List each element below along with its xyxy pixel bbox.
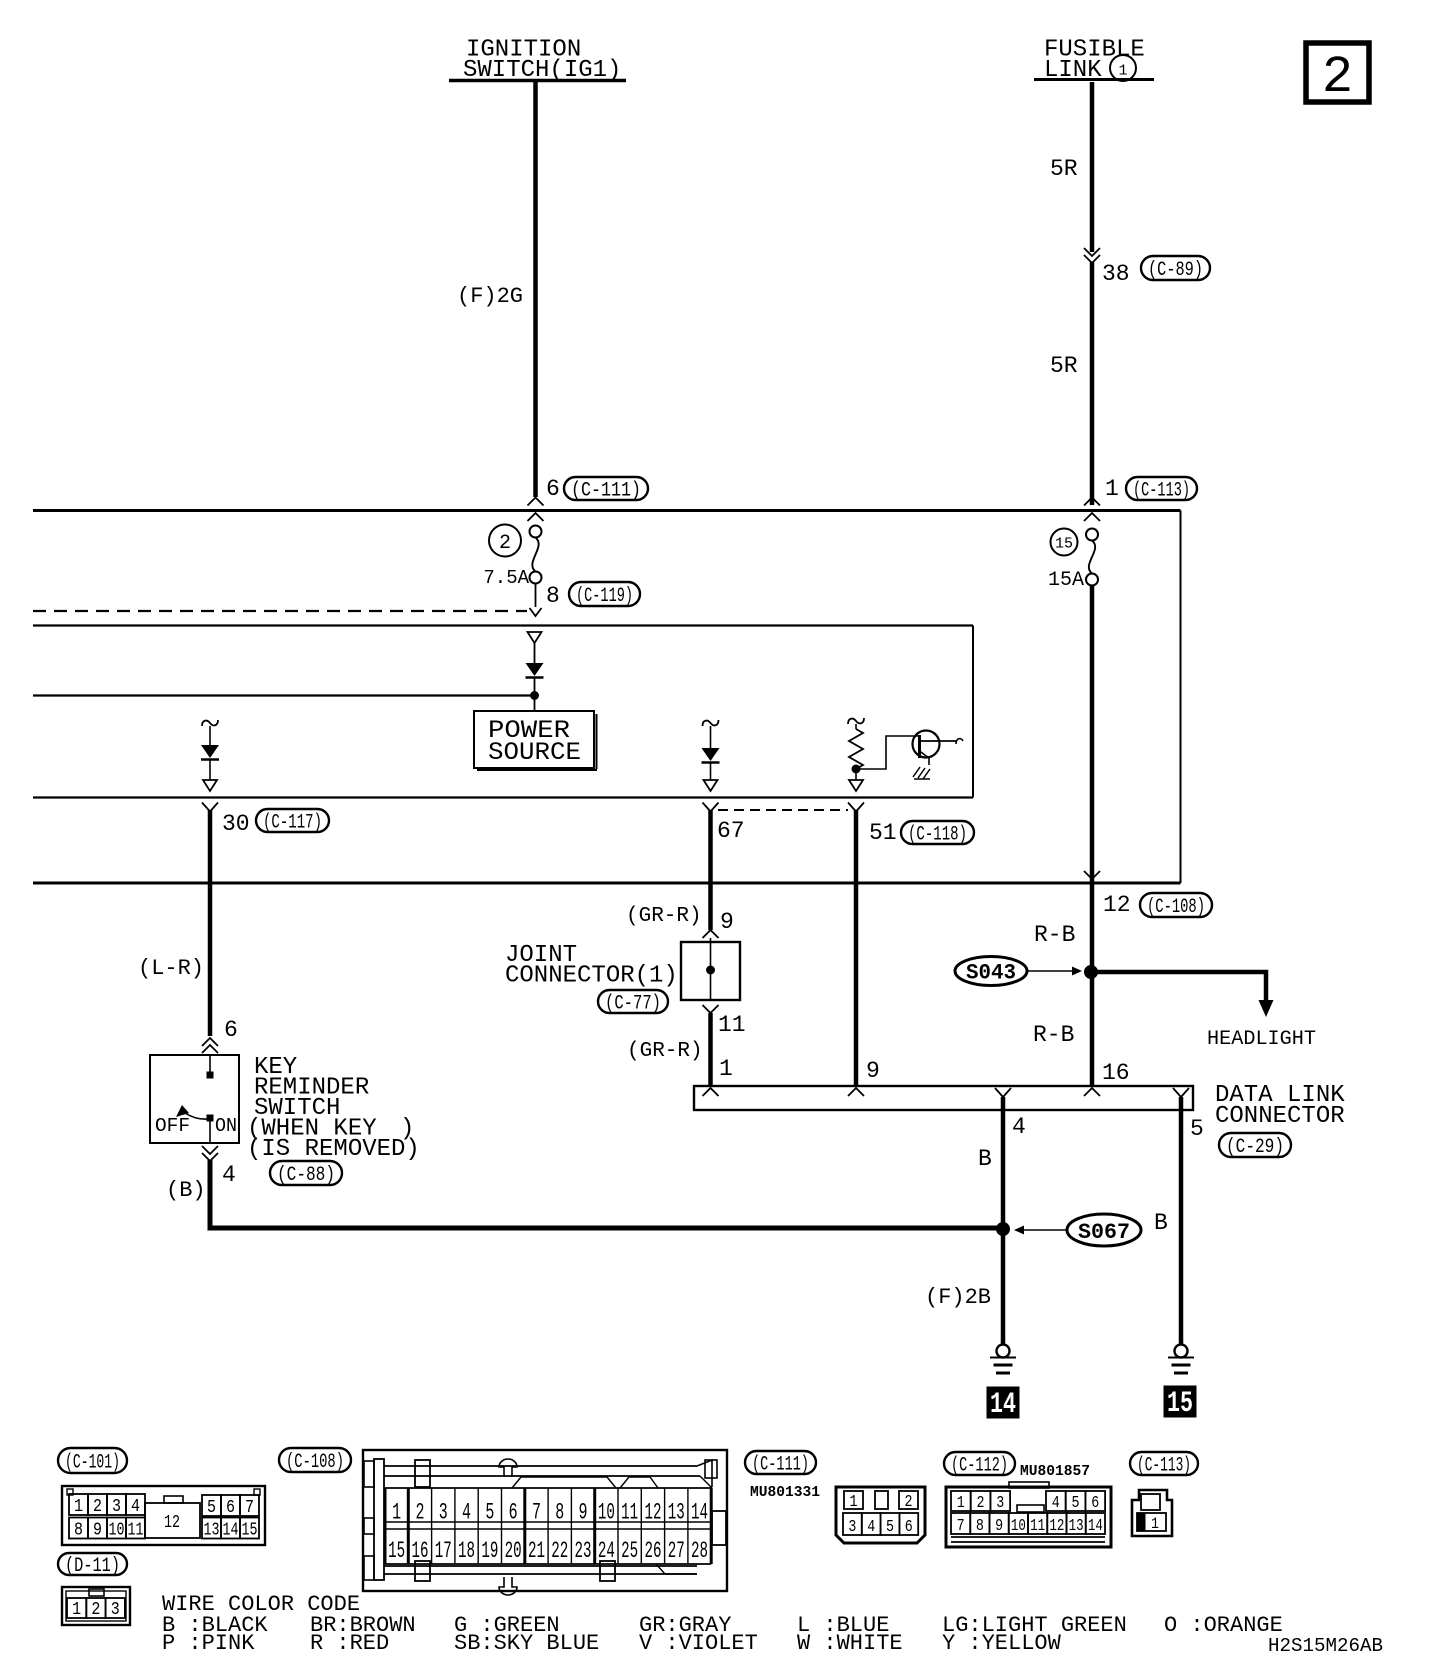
svg-text:1: 1 xyxy=(957,1494,965,1513)
svg-text:R-B: R-B xyxy=(1034,922,1075,948)
fuse 2 (7.5A) xyxy=(483,513,543,589)
label WIRE COLOR CODE xyxy=(162,1592,360,1617)
svg-text:(F)2B: (F)2B xyxy=(925,1285,991,1310)
svg-text:10: 10 xyxy=(109,1521,125,1541)
connector label D-11 xyxy=(58,1553,127,1578)
svg-text:SOURCE: SOURCE xyxy=(488,738,581,767)
svg-text:(C-29): (C-29) xyxy=(1226,1136,1284,1159)
svg-text:1: 1 xyxy=(72,1600,81,1620)
svg-text:3: 3 xyxy=(112,1497,121,1517)
wire fusible link 5R lower xyxy=(1090,262,1095,505)
svg-text:1: 1 xyxy=(1118,63,1127,80)
svg-text:27: 27 xyxy=(668,1538,685,1564)
wire bus line 3 (top of inner box) xyxy=(33,624,973,626)
ground G2 xyxy=(1168,1345,1194,1374)
svg-text:5: 5 xyxy=(485,1500,494,1526)
wire GR-R pin 67 down to joint connector xyxy=(708,810,713,930)
svg-text:2: 2 xyxy=(499,532,511,555)
label KEY REMINDER SWITCH xyxy=(247,1054,420,1163)
svg-text:2: 2 xyxy=(1322,48,1353,107)
svg-text:10: 10 xyxy=(598,1500,615,1526)
svg-text:(L-R): (L-R) xyxy=(138,956,204,981)
svg-text:1: 1 xyxy=(74,1497,83,1517)
svg-text:(C-108): (C-108) xyxy=(1147,896,1205,919)
svg-text:S043: S043 xyxy=(966,961,1016,986)
wire bus line 5 (bottom of inner box) xyxy=(33,796,973,798)
svg-text:(C-77): (C-77) xyxy=(605,993,661,1016)
svg-text:(IS REMOVED): (IS REMOVED) xyxy=(247,1136,420,1163)
svg-text:(C-117): (C-117) xyxy=(263,812,322,835)
wire resistor to transistor base xyxy=(856,736,918,769)
svg-text:6: 6 xyxy=(905,1518,913,1537)
svg-text:12: 12 xyxy=(1103,892,1131,918)
svg-text:30: 30 xyxy=(222,811,250,837)
svg-text:4: 4 xyxy=(222,1162,236,1188)
svg-text:20: 20 xyxy=(505,1538,522,1564)
svg-text:3: 3 xyxy=(996,1494,1004,1513)
node junction power source xyxy=(531,692,539,712)
svg-text:13: 13 xyxy=(1069,1517,1084,1536)
svg-text:13: 13 xyxy=(668,1500,685,1526)
svg-text:5: 5 xyxy=(1190,1116,1204,1142)
svg-text:(C-113): (C-113) xyxy=(1137,1455,1191,1478)
transistor Q1 xyxy=(913,731,964,766)
wire bus line 4 (power source rail) xyxy=(33,694,535,696)
svg-text:9: 9 xyxy=(579,1500,588,1526)
svg-text:4: 4 xyxy=(867,1518,875,1537)
svg-text:17: 17 xyxy=(435,1538,452,1564)
connector C-112 pin face xyxy=(946,1482,1111,1547)
svg-text:W :WHITE: W :WHITE xyxy=(797,1631,903,1656)
svg-text:CONNECTOR(1): CONNECTOR(1) xyxy=(505,963,678,990)
svg-text:B: B xyxy=(1154,1210,1168,1236)
svg-text:1: 1 xyxy=(392,1500,401,1526)
svg-text:16: 16 xyxy=(411,1538,428,1564)
svg-text:R-B: R-B xyxy=(1033,1022,1074,1048)
pin 30 connector C-117 xyxy=(202,803,329,838)
block POWER SOURCE xyxy=(474,711,597,770)
svg-text:5: 5 xyxy=(886,1518,894,1537)
svg-text:5R: 5R xyxy=(1050,353,1078,379)
svg-text:4: 4 xyxy=(1012,1114,1026,1140)
svg-text:21: 21 xyxy=(528,1538,545,1564)
svg-text:14: 14 xyxy=(223,1521,239,1541)
svg-text:(GR-R): (GR-R) xyxy=(627,1040,703,1063)
svg-text:1: 1 xyxy=(850,1493,858,1512)
wire bus line 2 dashed xyxy=(33,610,527,612)
wire bus line 1 (ignition feed rail) xyxy=(33,509,1181,512)
svg-text:15: 15 xyxy=(1055,536,1073,553)
connector label C-77 xyxy=(598,990,668,1016)
svg-text:(C-108): (C-108) xyxy=(286,1451,344,1474)
ground ref tab 14 xyxy=(987,1387,1019,1422)
svg-text:7: 7 xyxy=(245,1498,254,1518)
pin 11 joint connector xyxy=(703,1005,746,1038)
svg-text:2: 2 xyxy=(905,1493,913,1512)
svg-text:7.5A: 7.5A xyxy=(483,567,529,589)
svg-text:7: 7 xyxy=(957,1517,965,1536)
svg-text:ON: ON xyxy=(215,1115,237,1137)
label wire (F)2B xyxy=(925,1285,991,1310)
svg-text:4: 4 xyxy=(462,1500,471,1526)
connector label C-29 xyxy=(1219,1133,1291,1159)
data link connector strip xyxy=(694,1058,1193,1110)
svg-text:15A: 15A xyxy=(1048,569,1084,592)
wire B DLC pin 5 down to ground xyxy=(1154,1097,1181,1344)
svg-text:H2S15M26AB: H2S15M26AB xyxy=(1268,1635,1383,1657)
connector D-11 pin face xyxy=(62,1587,130,1625)
svg-text:6: 6 xyxy=(226,1498,235,1518)
svg-text:2: 2 xyxy=(977,1494,985,1513)
connector label C-108 xyxy=(279,1448,351,1474)
svg-text:9: 9 xyxy=(720,909,734,935)
pin 6 connector C-111 on bus line 1 xyxy=(528,476,649,506)
svg-text:1: 1 xyxy=(1105,476,1119,502)
svg-text:51: 51 xyxy=(869,820,897,846)
svg-text:8: 8 xyxy=(74,1521,83,1541)
svg-text:8: 8 xyxy=(555,1500,564,1526)
svg-text:4: 4 xyxy=(1052,1494,1060,1513)
label wire R-B lower xyxy=(1033,1022,1074,1048)
svg-text:5R: 5R xyxy=(1050,156,1078,182)
svg-text:16: 16 xyxy=(1102,1060,1130,1086)
svg-text:P :PINK: P :PINK xyxy=(162,1631,255,1656)
svg-text:6: 6 xyxy=(1091,1494,1099,1513)
svg-text:22: 22 xyxy=(551,1538,568,1564)
pin 6 key reminder switch xyxy=(202,1017,238,1053)
joint connector J/C (1) box xyxy=(681,942,740,1000)
svg-text:15: 15 xyxy=(1167,1387,1193,1421)
svg-text:(C-111): (C-111) xyxy=(752,1454,809,1477)
svg-text:3: 3 xyxy=(111,1600,120,1620)
svg-text:6: 6 xyxy=(546,476,560,502)
svg-text:(C-112): (C-112) xyxy=(951,1455,1008,1478)
wire ignition switch feed (F)2G vertical xyxy=(533,82,538,497)
svg-text:28: 28 xyxy=(691,1538,708,1564)
svg-text:12: 12 xyxy=(644,1500,661,1526)
svg-text:11: 11 xyxy=(718,1012,746,1038)
pin 12 connector C-108 xyxy=(1084,871,1212,919)
svg-text:CONNECTOR: CONNECTOR xyxy=(1215,1103,1345,1130)
node splice junction S067 xyxy=(997,1223,1010,1236)
svg-text:11: 11 xyxy=(621,1500,638,1526)
wire B DLC pin 4 down xyxy=(978,1097,1003,1229)
splice S067 xyxy=(1014,1214,1141,1246)
svg-text:9: 9 xyxy=(93,1521,102,1541)
svg-text:(C-118): (C-118) xyxy=(908,824,967,847)
svg-text:18: 18 xyxy=(458,1538,475,1564)
svg-text:(C-113): (C-113) xyxy=(1133,480,1190,503)
svg-text:13: 13 xyxy=(204,1521,220,1541)
svg-text:3: 3 xyxy=(439,1500,448,1526)
wire dashed link pin 67 to pin 51 xyxy=(718,809,848,811)
svg-text:(B): (B) xyxy=(166,1178,206,1203)
wire R-B splice to DLC pin 16 xyxy=(1092,883,1130,1086)
svg-text:3: 3 xyxy=(848,1518,856,1537)
pin 67 connector C-118 xyxy=(703,803,745,845)
svg-text:15: 15 xyxy=(242,1521,258,1541)
node IGNITION SWITCH (IG1) power feed xyxy=(449,37,626,85)
wire fusible link 5R upper xyxy=(1090,82,1095,252)
svg-text:8: 8 xyxy=(976,1517,984,1536)
connector C-108 pin face xyxy=(363,1450,727,1595)
svg-text:19: 19 xyxy=(481,1538,498,1564)
splice S043 xyxy=(955,957,1082,986)
connector label C-101 xyxy=(58,1448,127,1475)
wire GR-R joint connector to DLC pin 1 xyxy=(711,1013,733,1086)
label wire color code row 1 xyxy=(162,1613,1283,1638)
svg-text:23: 23 xyxy=(575,1538,592,1564)
svg-text:67: 67 xyxy=(717,818,745,844)
svg-text:2: 2 xyxy=(93,1497,102,1517)
connector C-111 pin face xyxy=(836,1487,925,1543)
svg-text:O :ORANGE: O :ORANGE xyxy=(1164,1613,1283,1638)
svg-text:26: 26 xyxy=(644,1538,661,1564)
label wire (F)2G xyxy=(457,284,523,309)
svg-text:9: 9 xyxy=(995,1517,1003,1536)
node splice junction S043 xyxy=(1085,966,1098,979)
svg-text:14: 14 xyxy=(691,1500,708,1526)
svg-text:24: 24 xyxy=(598,1538,615,1564)
svg-text:25: 25 xyxy=(621,1538,638,1564)
svg-text:5: 5 xyxy=(207,1498,216,1518)
node FUSIBLE LINK 1 xyxy=(1034,37,1154,85)
wire right edge of junction-block outline xyxy=(1180,511,1182,884)
svg-text:(C-111): (C-111) xyxy=(571,480,641,503)
label wire 5R lower xyxy=(1050,353,1078,379)
svg-text:1: 1 xyxy=(1151,1515,1159,1533)
svg-text:Y :YELLOW: Y :YELLOW xyxy=(942,1631,1062,1656)
connector C-113 pin face xyxy=(1132,1490,1172,1536)
svg-text:R :RED: R :RED xyxy=(310,1631,389,1656)
svg-text:B: B xyxy=(978,1146,992,1172)
svg-text:15: 15 xyxy=(388,1538,405,1564)
svg-text:38: 38 xyxy=(1102,261,1130,287)
pin 51 connector C-118 xyxy=(848,803,974,847)
svg-text:7: 7 xyxy=(532,1500,541,1526)
svg-text:MU801857: MU801857 xyxy=(1020,1463,1090,1480)
ground G1 xyxy=(990,1345,1016,1374)
pin 8 connector C-119 xyxy=(530,582,641,616)
connector C-101 pin face xyxy=(62,1486,265,1545)
pin 9 joint connector xyxy=(703,909,734,942)
svg-text:12: 12 xyxy=(164,1513,180,1533)
splice marker C-89 pin 38 xyxy=(1084,248,1210,287)
wire inner box right edge xyxy=(972,626,974,798)
pin 4 key reminder switch xyxy=(166,1146,236,1203)
svg-text:2: 2 xyxy=(91,1600,100,1620)
connector label C-88 xyxy=(270,1161,342,1187)
svg-text:(C-101): (C-101) xyxy=(65,1452,120,1475)
svg-text:MU801331: MU801331 xyxy=(750,1484,820,1501)
label JOINT CONNECTOR (1) xyxy=(505,942,678,990)
wire fuse 15 output R-B down to bus 6 xyxy=(1090,586,1095,884)
wire B from key reminder switch to splice S067 xyxy=(210,1160,1003,1228)
node junction resistor bottom xyxy=(852,765,860,773)
hollow arrow below resistor xyxy=(849,772,863,791)
label HEADLIGHT xyxy=(1207,1028,1316,1051)
pin 5 DLC xyxy=(1173,1088,1204,1142)
wire to HEADLIGHT xyxy=(1091,972,1274,1017)
connector label C-112 xyxy=(944,1452,1015,1478)
pin 4 DLC xyxy=(995,1088,1026,1140)
wire L-R from pin 30 down xyxy=(208,810,213,1036)
svg-text:OFF: OFF xyxy=(155,1115,190,1137)
svg-text:V :VIOLET: V :VIOLET xyxy=(639,1631,758,1656)
wire F2B to ground xyxy=(1001,1229,1006,1344)
svg-text:HEADLIGHT: HEADLIGHT xyxy=(1207,1028,1316,1051)
pin 1 connector C-113 on bus line 1 xyxy=(1084,476,1197,506)
resistor R1 (transistor base) xyxy=(848,718,864,769)
connector label C-111 xyxy=(745,1451,816,1477)
label wire (L-R) xyxy=(138,956,204,981)
diode D2 (key reminder branch) xyxy=(201,720,219,791)
diode D1 feed into power source xyxy=(526,632,544,695)
diode D3 (joint connector branch) xyxy=(702,720,720,791)
switch S1 KEY REMINDER SWITCH xyxy=(150,1055,239,1143)
label DATA LINK CONNECTOR xyxy=(1215,1082,1345,1130)
wire bus line 6 (lower rail) xyxy=(33,882,1181,885)
svg-text:2: 2 xyxy=(415,1500,424,1526)
svg-text:14: 14 xyxy=(1088,1517,1103,1536)
svg-text:10: 10 xyxy=(1011,1517,1026,1536)
svg-text:12: 12 xyxy=(1049,1517,1064,1536)
svg-text:S067: S067 xyxy=(1078,1220,1130,1245)
svg-text:1: 1 xyxy=(719,1056,733,1082)
svg-text:6: 6 xyxy=(224,1017,238,1043)
label wire (GR-R) upper xyxy=(626,905,702,928)
label wire (GR-R) lower xyxy=(627,1040,703,1063)
svg-text:6: 6 xyxy=(509,1500,518,1526)
label wire color code row 2 xyxy=(162,1631,1062,1656)
label drawing number H2S15M26AB xyxy=(1268,1635,1383,1657)
svg-text:14: 14 xyxy=(990,1388,1016,1422)
ground ref tab 15 xyxy=(1164,1386,1196,1421)
label part number MU801857 xyxy=(1020,1463,1090,1480)
svg-text:9: 9 xyxy=(866,1058,880,1084)
svg-text:8: 8 xyxy=(546,583,560,609)
wire B pin 51 down to data link connector xyxy=(854,810,859,1086)
ground transistor emitter xyxy=(913,767,930,779)
svg-text:(GR-R): (GR-R) xyxy=(626,905,702,928)
svg-text:SB:SKY BLUE: SB:SKY BLUE xyxy=(454,1631,599,1656)
page tab 2 xyxy=(1306,43,1369,107)
svg-text:11: 11 xyxy=(128,1521,144,1541)
label wire 5R upper xyxy=(1050,156,1078,182)
svg-text:(C-119): (C-119) xyxy=(576,585,633,608)
svg-text:11: 11 xyxy=(1030,1517,1045,1536)
svg-text:(C-88): (C-88) xyxy=(277,1164,335,1187)
label part number MU801331 xyxy=(750,1484,820,1501)
svg-text:(D-11): (D-11) xyxy=(65,1555,120,1578)
label wire R-B upper xyxy=(1034,922,1075,948)
svg-text:5: 5 xyxy=(1072,1494,1080,1513)
fuse 15 (15A) xyxy=(1048,513,1100,592)
svg-text:(C-89): (C-89) xyxy=(1148,259,1203,282)
connector label C-113 xyxy=(1130,1452,1198,1478)
svg-text:(F)2G: (F)2G xyxy=(457,284,523,309)
svg-text:4: 4 xyxy=(131,1497,140,1517)
